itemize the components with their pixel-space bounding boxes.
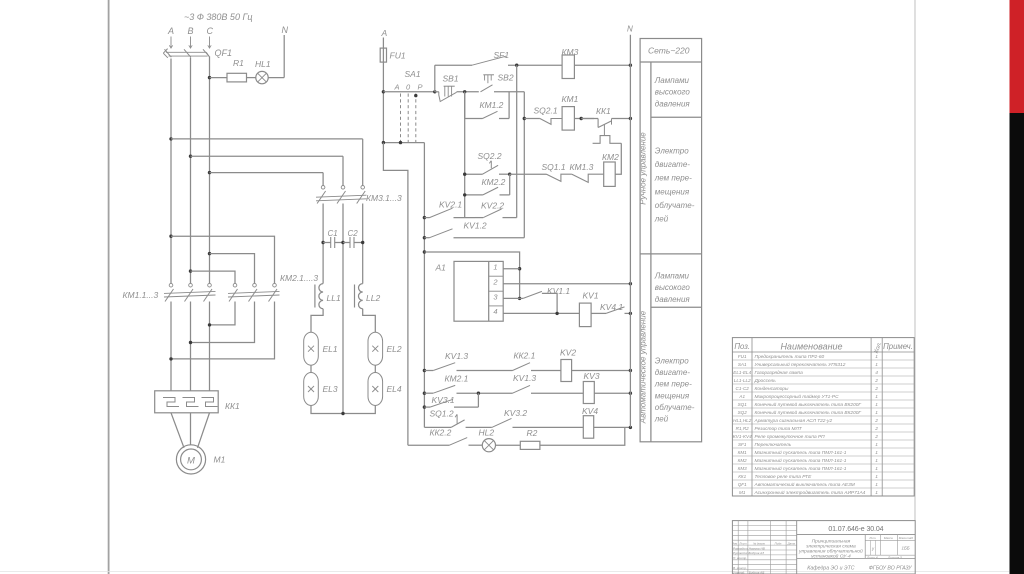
node pin3 tap — [518, 297, 521, 300]
svg-text:Конденсаторы: Конденсаторы — [755, 386, 789, 392]
wire pin1 — [503, 268, 519, 270]
svg-text:HL1,HL2: HL1,HL2 — [733, 418, 752, 423]
svg-text:1: 1 — [875, 482, 878, 488]
table row SQ1 — [738, 401, 879, 408]
node A line1 — [169, 137, 172, 140]
table row КМ3 — [738, 465, 879, 472]
wire A feed jog — [383, 143, 408, 446]
svg-text:KV2: KV2 — [560, 348, 576, 358]
svg-text:Электро: Электро — [655, 357, 689, 366]
contact KV2.1 — [424, 200, 475, 218]
svg-text:Разработ.: Разработ. — [733, 546, 749, 550]
svg-text:R2: R2 — [527, 428, 538, 438]
svg-text:В: В — [188, 26, 194, 36]
svg-text:Поз.: Поз. — [734, 342, 750, 351]
svg-text:QF1: QF1 — [215, 48, 233, 58]
limit switch contact SQ2.2 — [465, 151, 510, 174]
wire main feed vertical — [523, 92, 525, 238]
wire A to FU1 — [382, 38, 384, 49]
svg-text:КМ2.2: КМ2.2 — [482, 177, 506, 187]
label motor section 2 — [654, 357, 695, 424]
svg-text:КМ2.1: КМ2.1 — [445, 374, 469, 384]
wire EL2-EL4 — [374, 365, 376, 372]
wire line1 A to KM3 — [171, 138, 363, 140]
svg-text:1ББ: 1ББ — [902, 545, 910, 550]
svg-text:KV3: KV3 — [584, 371, 600, 381]
svg-text:В. контр.: В. контр. — [733, 566, 747, 570]
table row М1 — [739, 489, 878, 496]
contact KK2.2 — [408, 428, 482, 446]
svg-text:давления: давления — [655, 99, 691, 108]
wire HL1-N — [268, 77, 284, 79]
node N-KM3 — [629, 63, 632, 66]
svg-text:EL1: EL1 — [323, 344, 338, 354]
wire KM2 pole2 crossover to B — [191, 302, 255, 343]
title block frame — [732, 521, 915, 574]
node N-KM1 row — [629, 117, 632, 120]
svg-text:EL3: EL3 — [323, 384, 338, 394]
node row1 right — [508, 173, 511, 176]
black side bar — [1010, 113, 1024, 574]
svg-text:КМ3: КМ3 — [738, 466, 748, 471]
wire R2 to rowD — [540, 427, 625, 445]
svg-text:KV1.2: KV1.2 — [464, 221, 487, 231]
capacitor C1 — [321, 229, 343, 248]
svg-text:№ докум.: № докум. — [753, 541, 766, 545]
svg-text:~3 Ф 380В 50 Гц: ~3 Ф 380В 50 Гц — [184, 12, 253, 22]
svg-text:А: А — [394, 83, 400, 92]
node rail KV1.2 — [423, 236, 426, 239]
resistor R2 — [520, 428, 540, 449]
wire V-a down — [464, 92, 466, 218]
svg-text:КМ2: КМ2 — [738, 458, 748, 463]
wire pin2 to N — [503, 283, 630, 285]
svg-text:мещения: мещения — [655, 391, 690, 400]
wire phase B vertical — [190, 58, 192, 284]
svg-text:SF1: SF1 — [494, 50, 510, 60]
svg-text:KV2.1: KV2.1 — [439, 200, 462, 210]
wire row1 to SQ1.1 — [510, 173, 547, 175]
node C-R1 junction — [208, 76, 211, 79]
svg-text:4: 4 — [493, 307, 497, 316]
contact KM1.2 — [465, 92, 509, 119]
svg-text:Масштаб: Масштаб — [899, 536, 913, 540]
node rail rowA — [423, 369, 426, 372]
table row КМ1 — [738, 449, 879, 456]
node pin4-KV1.1 — [555, 312, 558, 315]
svg-text:Дата: Дата — [787, 541, 796, 545]
svg-text:FU1: FU1 — [738, 354, 747, 359]
svg-text:Сеть~220: Сеть~220 — [648, 46, 690, 56]
timer A1 — [435, 261, 504, 321]
node KV3.1 bridge — [477, 392, 480, 395]
svg-text:С1: С1 — [328, 229, 338, 238]
wire KV4 to N — [594, 426, 631, 428]
wire LL2 to EL2 — [363, 309, 376, 332]
node KM2.2 left — [463, 193, 466, 196]
svg-text:Магнитный пускатель типа ПМЛ-1: Магнитный пускатель типа ПМЛ-161-1 — [755, 465, 847, 472]
contact KM1.3 — [570, 162, 604, 182]
table row QF1 — [738, 481, 879, 488]
svg-text:Тепловое реле типа РТЕ: Тепловое реле типа РТЕ — [755, 474, 813, 480]
wire HL2-R2 — [496, 444, 521, 446]
label lamps section 1 — [654, 76, 691, 108]
svg-text:КМ3: КМ3 — [562, 47, 579, 57]
table row LL1-LL2 — [734, 378, 878, 384]
svg-text:КК2.1: КК2.1 — [514, 351, 536, 361]
svg-text:SF1: SF1 — [738, 442, 747, 447]
contact KK2.1 — [513, 351, 561, 371]
svg-text:Конечный путевой выключатель т: Конечный путевой выключатель типа ВК200Г — [755, 409, 862, 416]
svg-text:N: N — [282, 25, 289, 35]
node pin1 tap — [518, 267, 521, 270]
svg-text:М1: М1 — [739, 490, 746, 495]
svg-text:2: 2 — [874, 418, 878, 424]
svg-text:QF1: QF1 — [738, 482, 747, 487]
svg-text:N: N — [627, 25, 633, 34]
svg-text:KV1.1: KV1.1 — [547, 286, 570, 296]
fuse FU1 — [380, 48, 406, 62]
title description — [798, 539, 863, 560]
wire SB2 to corner — [494, 91, 524, 93]
table header labels — [734, 341, 913, 354]
wire KM3 coil to N — [574, 64, 630, 66]
wire KV3 to N — [594, 392, 630, 394]
node rail rowB — [423, 392, 426, 395]
svg-text:SB2: SB2 — [498, 73, 514, 83]
svg-text:SQ1.2: SQ1.2 — [430, 409, 454, 419]
contact KV1.3 — [424, 351, 512, 371]
wire KM3 left down — [322, 204, 324, 284]
node lamp return — [341, 412, 344, 415]
wire SF1 to KM3 coil — [508, 64, 562, 66]
wire pin4 — [503, 312, 579, 314]
wire SB1-SB2 — [457, 91, 479, 93]
wire line3 C to KM3 — [210, 172, 324, 174]
bottom hairline — [0, 571, 1009, 573]
svg-text:KV1.3: KV1.3 — [445, 351, 468, 361]
wire N drop — [283, 35, 285, 78]
svg-text:1: 1 — [875, 362, 878, 368]
contact KM2.2 — [465, 174, 510, 195]
contactor contacts KM3.1...3 — [316, 186, 402, 204]
wire main row — [383, 91, 434, 93]
contact KV3.1 — [424, 393, 478, 407]
title small cells text — [732, 536, 913, 574]
svg-text:Лампами: Лампами — [654, 271, 690, 280]
svg-text:KV1-KV4: KV1-KV4 — [733, 434, 752, 439]
svg-text:1: 1 — [875, 410, 878, 416]
wires KK1 to motor — [171, 413, 184, 448]
contact KV1.3 second — [513, 373, 584, 393]
node rail KV2.1 — [423, 216, 426, 219]
svg-text:LL2: LL2 — [366, 293, 380, 303]
svg-text:Наименование: Наименование — [780, 342, 842, 352]
lamp HL1 — [255, 59, 271, 84]
lamp EL2 — [368, 332, 402, 365]
coil KM1 — [562, 94, 579, 130]
table row SQ2 — [738, 409, 879, 416]
svg-text:Наумов НВ: Наумов НВ — [749, 546, 765, 550]
wire KM2 coil up to KK1 — [615, 143, 621, 174]
wire KM2 pole3 crossover to A — [171, 302, 275, 359]
svg-text:1: 1 — [875, 474, 878, 480]
svg-text:высокого: высокого — [655, 283, 691, 292]
thermal relay KK1 — [155, 391, 240, 413]
svg-text:Лист: Лист — [738, 541, 747, 545]
node C line3 — [208, 171, 211, 174]
choke LL2 — [355, 284, 381, 309]
svg-text:R1,R2: R1,R2 — [736, 426, 749, 431]
selector switch SA1 — [394, 69, 423, 143]
svg-text:1: 1 — [875, 490, 878, 496]
page left border — [108, 0, 110, 574]
svg-text:Асинхронный электродвигатель т: Асинхронный электродвигатель типа АИР71А… — [754, 489, 866, 496]
coil KM3 — [562, 47, 579, 79]
svg-text:EL2: EL2 — [387, 344, 402, 354]
svg-text:КК1: КК1 — [738, 474, 746, 479]
wire SF1 branch up — [434, 65, 436, 92]
contact KV4.1 — [600, 302, 630, 313]
svg-text:Бобров АВ: Бобров АВ — [749, 571, 765, 574]
wire C to KM2 pole2 — [210, 254, 255, 284]
svg-text:Автоматический выключатель тип: Автоматический выключатель типа АЕ3М — [754, 481, 855, 488]
svg-text:HL1: HL1 — [255, 59, 271, 69]
capacitor C2 — [341, 229, 364, 248]
table row SF1 — [738, 442, 878, 448]
lamp EL1 — [304, 332, 338, 365]
resistor R1 — [227, 73, 247, 82]
choke LL1 — [315, 284, 341, 309]
wire KM1 poles down — [170, 302, 172, 391]
svg-text:Микропроцессорный таймер УТ1-Р: Микропроцессорный таймер УТ1-РС — [755, 393, 840, 400]
svg-text:Масса: Масса — [884, 536, 893, 540]
push-button SB1 — [435, 74, 459, 102]
thermal contact KK1 — [581, 106, 630, 143]
svg-text:КК1: КК1 — [225, 401, 240, 411]
svg-text:С1-С2: С1-С2 — [736, 386, 750, 391]
svg-text:высокого: высокого — [655, 88, 691, 97]
svg-text:мещения: мещения — [655, 187, 690, 196]
wire line2 B to KM3 — [191, 155, 344, 157]
svg-text:лем пере-: лем пере- — [654, 174, 692, 183]
svg-text:1: 1 — [875, 450, 878, 456]
svg-text:Газоразрядная лампа: Газоразрядная лампа — [755, 370, 804, 376]
svg-text:1: 1 — [875, 458, 878, 464]
relay coil KV1 — [579, 291, 598, 327]
contactor contacts KM2.1...3 — [228, 273, 318, 302]
svg-text:1: 1 — [875, 402, 878, 408]
svg-text:EL4: EL4 — [387, 384, 402, 394]
svg-text:Резистор типа МЛТ: Резистор типа МЛТ — [755, 426, 803, 432]
svg-text:Р: Р — [418, 83, 423, 92]
svg-text:Ручное управление: Ручное управление — [639, 132, 648, 205]
svg-text:KV1.3: KV1.3 — [513, 373, 536, 383]
svg-text:Лит.: Лит. — [868, 536, 876, 540]
svg-text:ФГБОУ ВО РГАЗУ: ФГБОУ ВО РГАЗУ — [869, 566, 913, 572]
switch SF1 — [435, 50, 510, 65]
contact KV2.2 — [475, 201, 517, 218]
svg-text:Кафедра ЭО и ЭТС: Кафедра ЭО и ЭТС — [807, 566, 854, 572]
node KM1-KK1 — [580, 117, 583, 120]
svg-text:КМ1.3: КМ1.3 — [570, 162, 594, 172]
svg-text:2: 2 — [874, 434, 878, 440]
node N rowA — [629, 369, 632, 372]
wire EL4 return — [343, 406, 375, 414]
svg-text:двигате-: двигате- — [655, 160, 690, 169]
svg-text:А1: А1 — [738, 394, 745, 399]
svg-text:2: 2 — [874, 386, 878, 392]
node N KV1 row — [629, 312, 632, 315]
contact SQ1.2 — [424, 409, 491, 428]
svg-text:KV2.2: KV2.2 — [481, 201, 504, 211]
svg-text:Дроссель: Дроссель — [754, 378, 777, 384]
svg-text:КМ1.1...3: КМ1.1...3 — [123, 290, 159, 300]
wire KM3 mid down (lamp return) — [342, 204, 344, 414]
svg-text:лей: лей — [654, 215, 669, 224]
svg-text:1: 1 — [493, 263, 497, 272]
coil KM2 — [602, 152, 619, 186]
wire KM1 coil out — [574, 118, 594, 120]
svg-text:1: 1 — [875, 442, 878, 448]
push-button SB2 — [481, 73, 514, 92]
function column frame — [640, 39, 702, 442]
node FU1-main — [382, 90, 385, 93]
wire auto feed vertical — [516, 65, 518, 217]
svg-text:Примеч.: Примеч. — [883, 342, 913, 351]
svg-text:SQ2: SQ2 — [738, 410, 748, 415]
svg-text:Реле промежуточное типа РП: Реле промежуточное типа РП — [755, 434, 826, 440]
svg-text:Магнитный пускатель типа ПМЛ-1: Магнитный пускатель типа ПМЛ-161-1 — [755, 457, 847, 464]
svg-text:SA1: SA1 — [738, 362, 747, 367]
label lamps section 2 — [654, 271, 691, 304]
svg-text:LL1: LL1 — [327, 293, 341, 303]
wire to R1 — [210, 77, 228, 79]
svg-text:SB1: SB1 — [443, 74, 459, 84]
svg-text:облучате-: облучате- — [655, 403, 695, 412]
svg-text:Руководит.: Руководит. — [733, 551, 750, 555]
motor M1 — [176, 445, 225, 474]
svg-text:Переключатель: Переключатель — [755, 442, 792, 448]
table row EL1-EL4 — [733, 370, 878, 376]
node C-KM2 branch — [208, 252, 211, 255]
components table frame — [732, 338, 914, 496]
table row КМ2 — [738, 457, 879, 464]
svg-text:Лампами: Лампами — [654, 76, 690, 85]
svg-text:KV1: KV1 — [583, 291, 599, 301]
red side bar — [1010, 0, 1024, 113]
node rail KV3.1 — [423, 405, 426, 408]
svg-text:КК2.2: КК2.2 — [430, 428, 452, 438]
svg-text:лей: лей — [654, 415, 669, 424]
svg-text:2: 2 — [874, 378, 878, 384]
wire B to KM2 pole1 — [191, 271, 236, 283]
limit switch contact SQ2.1 — [524, 106, 562, 125]
svg-text:Автоматическое управление: Автоматическое управление — [639, 310, 648, 424]
svg-text:KV4.1: KV4.1 — [600, 302, 623, 312]
svg-text:1: 1 — [875, 466, 878, 472]
table row KV1-KV4 — [733, 434, 879, 440]
table row С1-С2 — [736, 386, 879, 392]
svg-text:С: С — [207, 26, 214, 36]
svg-text:М1: М1 — [214, 455, 226, 465]
svg-text:HL2: HL2 — [479, 428, 495, 438]
wire control left rail — [423, 143, 425, 428]
svg-text:1: 1 — [875, 354, 878, 360]
svg-text:SQ1.1: SQ1.1 — [542, 162, 566, 172]
wire pin3 — [503, 297, 519, 299]
wire KV1 out — [591, 312, 606, 314]
svg-text:Бобров АЗ: Бобров АЗ — [749, 551, 764, 555]
svg-text:Лист 4: Лист 4 — [866, 556, 878, 560]
wire phase C vertical — [209, 57, 211, 284]
node N rowD — [629, 426, 632, 429]
table row А1 — [738, 393, 878, 400]
svg-text:КМ2.1....3: КМ2.1....3 — [280, 273, 318, 283]
contact KV1.2 — [424, 221, 524, 238]
svg-text:облучате-: облучате- — [655, 201, 695, 210]
svg-text:Н. контр.: Н. контр. — [733, 556, 747, 560]
svg-text:двигате-: двигате- — [655, 368, 690, 377]
circuit breaker QF1 — [163, 48, 232, 58]
contact KV3.2 — [492, 408, 584, 427]
wire A to KM2 pole3 — [171, 236, 275, 283]
relay coil KV3 — [583, 371, 600, 404]
svg-text:КМ1: КМ1 — [562, 94, 579, 104]
table row HL1,HL2 — [733, 418, 878, 424]
node row1 left — [463, 173, 466, 176]
wire phase A vertical — [170, 59, 172, 284]
svg-text:Подп.: Подп. — [775, 541, 783, 545]
wire LL1 to EL1 — [311, 309, 323, 332]
svg-text:А: А — [167, 26, 174, 36]
wire FU1 down — [382, 62, 384, 143]
node SQ2.1 tap — [523, 117, 526, 120]
svg-text:SQ2.1: SQ2.1 — [534, 106, 558, 116]
contactor contacts KM1.1...3 — [123, 283, 216, 301]
limit switch contact SQ1.1 — [542, 162, 572, 181]
svg-text:4: 4 — [875, 370, 878, 376]
svg-text:Электро: Электро — [655, 147, 689, 156]
svg-text:2: 2 — [492, 277, 498, 286]
table row SA1 — [738, 361, 878, 368]
svg-text:КМ1: КМ1 — [738, 450, 748, 455]
svg-text:FU1: FU1 — [390, 51, 406, 61]
svg-text:КК1: КК1 — [596, 106, 611, 116]
wire KM3 right down — [362, 204, 364, 284]
wire EL3 return — [311, 406, 343, 414]
lamp HL2 — [479, 428, 496, 452]
node auto feed tap — [515, 63, 518, 66]
lamp EL3 — [304, 373, 338, 406]
svg-text:2: 2 — [874, 426, 878, 432]
svg-text:SQ2.2: SQ2.2 — [478, 151, 502, 161]
svg-text:С2: С2 — [348, 229, 359, 238]
node SB1-SB2 junction — [463, 90, 466, 93]
svg-text:КМ1.2: КМ1.2 — [480, 100, 504, 110]
lamp EL4 — [368, 373, 402, 406]
label motor section 1 — [654, 147, 695, 224]
table row КК1 — [738, 474, 878, 480]
svg-text:М: М — [187, 456, 195, 467]
svg-text:SA1: SA1 — [405, 69, 421, 79]
wire SA1 bottom bar — [383, 142, 424, 144]
wire KM2 pole1 crossover to C — [210, 302, 236, 325]
contact KM2.1 — [424, 374, 512, 394]
node A-KM2 branch — [169, 235, 172, 238]
svg-text:KV4: KV4 — [582, 406, 598, 416]
svg-text:лем пере-: лем пере- — [654, 380, 692, 389]
